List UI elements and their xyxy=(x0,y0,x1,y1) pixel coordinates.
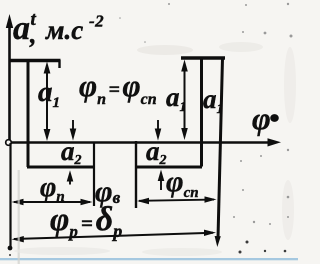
right pulse top line xyxy=(181,56,225,59)
a1 dimension arrow left xyxy=(44,62,51,142)
scan noise specks xyxy=(119,3,292,225)
a2 upper arrow left xyxy=(70,120,77,141)
phi_n dimension line xyxy=(12,199,93,205)
left reference line below origin xyxy=(9,143,11,247)
vertical axis a xyxy=(6,14,13,143)
left pulse inner vertical xyxy=(27,59,30,167)
svg-text:-2: -2 xyxy=(89,12,104,31)
origin circle xyxy=(6,140,12,146)
left pulse top line xyxy=(9,60,61,68)
faint scanner streak xyxy=(18,170,20,264)
axis label a^t, m.c^-2 xyxy=(13,9,104,49)
svg-text:a: a xyxy=(13,10,30,47)
horizontal axis phi xyxy=(8,138,281,146)
a1 dimension arrow right xyxy=(181,60,188,141)
a2 lower arrow right xyxy=(158,170,165,191)
right pulse middle vertical xyxy=(200,58,203,167)
right negative pulse left edge / tick xyxy=(135,141,137,208)
tick line end of rise phase xyxy=(93,142,95,206)
left negative pulse bottom xyxy=(27,165,95,168)
a2 lower arrow left xyxy=(67,170,74,184)
degree blob xyxy=(270,114,279,122)
svg-text:,: , xyxy=(29,20,37,49)
svg-text:м.с: м.с xyxy=(45,15,83,45)
phi_cn dimension line xyxy=(137,196,217,204)
phi_p dimension line xyxy=(12,230,217,243)
right pulse right edge extended down xyxy=(215,58,223,247)
right negative pulse bottom xyxy=(136,165,202,168)
bottom ruled blue line xyxy=(0,258,298,260)
haze patches xyxy=(14,42,296,256)
svg-text:φ: φ xyxy=(252,100,271,136)
a2 upper arrow right xyxy=(155,120,162,141)
